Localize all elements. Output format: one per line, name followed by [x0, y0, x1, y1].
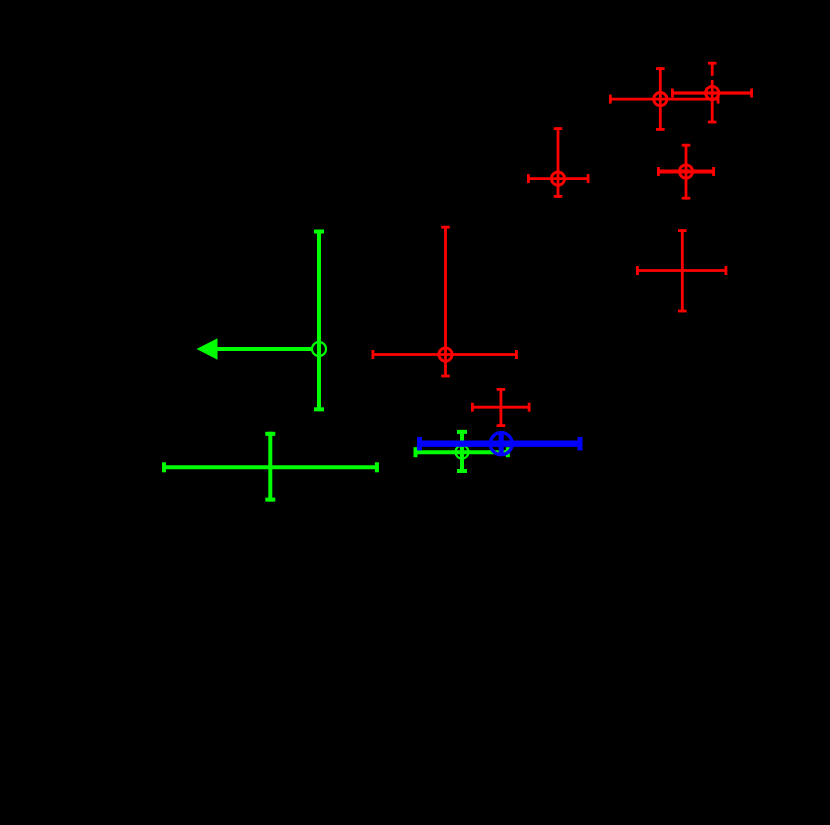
- blue data point B1 (thick bar with open-circle marker): [417, 431, 583, 456]
- red data point R5 (plain cross): [636, 229, 727, 312]
- red data point R6 (large cross with circle): [372, 226, 518, 378]
- red data point R4: [657, 144, 715, 200]
- red data point R7 (small plain cross): [471, 388, 531, 427]
- red data point R3: [527, 127, 590, 198]
- red data point R2 (top-right cluster, right): [671, 62, 753, 124]
- green data point G3 (small cross with circle): [414, 430, 510, 473]
- green data point G1 (upper limit arrow): [197, 230, 327, 412]
- green data point G2 (large plain cross): [162, 432, 379, 502]
- red data point R1 (top-right cluster, left): [609, 67, 720, 131]
